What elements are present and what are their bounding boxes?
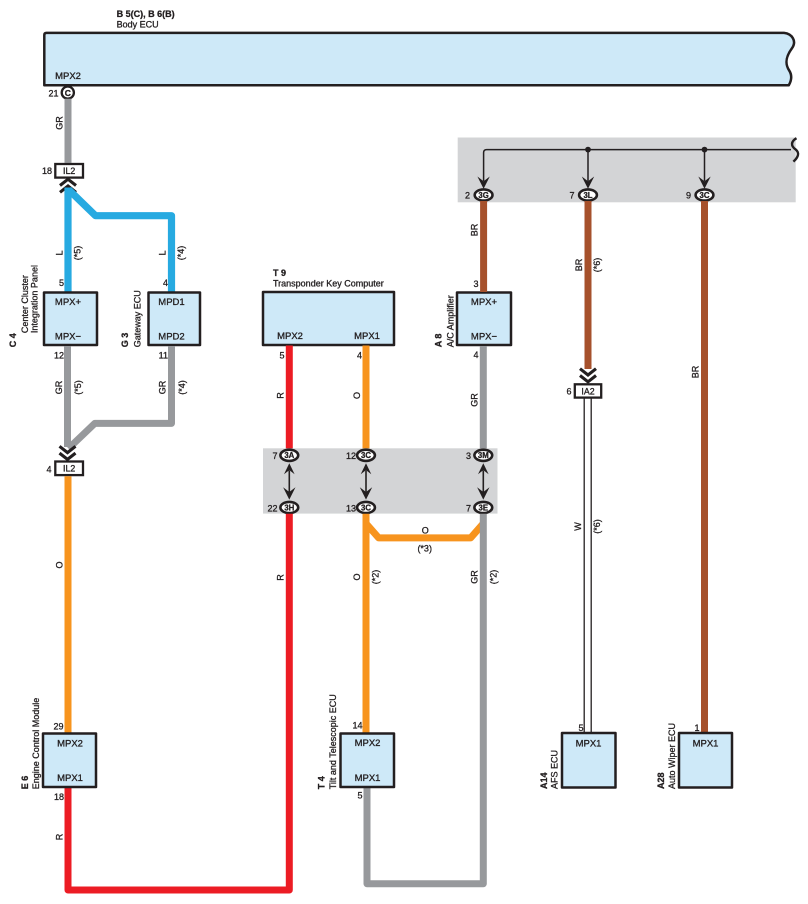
svg-text:5: 5: [578, 723, 583, 733]
arrow into 3C top: [698, 177, 710, 189]
svg-text:R: R: [276, 574, 286, 581]
svg-text:C 4: C 4: [8, 333, 18, 347]
wire O branch (*3): [366, 524, 483, 554]
svg-text:2: 2: [465, 191, 470, 201]
connector 3M pin 3: [466, 450, 492, 461]
connector IL2 pin 18: [42, 164, 83, 178]
wire R T9 pin5 to 3A: [276, 346, 290, 450]
ECU A28 Auto Wiper ECU: [656, 723, 732, 789]
svg-text:GR: GR: [55, 116, 65, 130]
ECU T4 Tilt and Telescopic ECU: [317, 694, 395, 800]
ECU A8 A/C Amplifier: [434, 279, 512, 360]
svg-text:1: 1: [694, 723, 699, 733]
svg-text:W: W: [573, 522, 583, 531]
svg-text:MPX1: MPX1: [355, 773, 381, 784]
ECU T9 Transponder Key Computer: [263, 268, 394, 361]
svg-text:Gateway ECU: Gateway ECU: [133, 290, 143, 347]
svg-text:GR: GR: [470, 570, 480, 584]
svg-text:22: 22: [267, 503, 277, 513]
svg-text:T 4: T 4: [317, 776, 327, 789]
svg-text:MPX1: MPX1: [354, 331, 380, 342]
ECU C4 Center Cluster Integration Panel: [8, 265, 97, 360]
svg-text:IL2: IL2: [63, 166, 75, 176]
svg-text:(*3): (*3): [417, 543, 432, 553]
band continuation squiggle: [792, 138, 798, 161]
wire BR 3C to A28 pin1: [691, 201, 705, 733]
svg-text:5: 5: [59, 278, 64, 288]
wire GR Body ECU pin21 to IL2: [55, 99, 69, 163]
svg-text:3L: 3L: [583, 191, 592, 200]
svg-text:(*4): (*4): [177, 380, 187, 395]
svg-text:A28: A28: [656, 772, 666, 789]
svg-text:MPX2: MPX2: [55, 71, 81, 82]
wire GR A8 pin4 to 3M: [470, 346, 484, 449]
svg-text:Auto Wiper ECU: Auto Wiper ECU: [667, 723, 677, 789]
ECU G3 Gateway ECU: [120, 278, 200, 360]
svg-text:12: 12: [54, 350, 64, 360]
svg-text:5: 5: [357, 790, 362, 800]
wire label GR (*5): [54, 380, 83, 395]
svg-text:MPX2: MPX2: [355, 738, 381, 749]
wire O IL2 to E6 pin29: [55, 476, 69, 733]
wire O T9 pin4 to 3C: [352, 346, 366, 450]
svg-text:A14: A14: [539, 772, 549, 789]
svg-text:4: 4: [163, 278, 168, 288]
svg-text:29: 29: [53, 721, 63, 731]
pass-through arrow 3M-3E: [477, 463, 489, 499]
svg-text:MPD1: MPD1: [158, 297, 184, 308]
svg-text:MPX2: MPX2: [277, 331, 303, 342]
connector 3A pin 7: [272, 450, 298, 461]
svg-text:GR: GR: [158, 380, 168, 394]
pin 21 of Body ECU: [48, 88, 58, 98]
connector 3G pin 2: [465, 189, 493, 200]
svg-text:Transponder Key Computer: Transponder Key Computer: [273, 278, 384, 288]
wire GR from C4 pin12: [64, 346, 71, 447]
wire L from IL2 to C4 and G3: [68, 188, 172, 293]
pass-through arrow 3A-3H: [283, 463, 295, 499]
svg-text:MPX+: MPX+: [471, 297, 498, 308]
svg-text:3: 3: [466, 451, 471, 461]
svg-text:5: 5: [279, 350, 284, 360]
wire GR from G3 pin11: [69, 346, 172, 449]
ECU A14 AFS ECU: [539, 723, 616, 789]
svg-text:GR: GR: [470, 393, 480, 407]
wire label R below E6: [55, 833, 65, 840]
ECU E6 Engine Control Module: [20, 698, 96, 802]
svg-text:(*2): (*2): [371, 570, 381, 585]
connector 3L pin 7: [569, 189, 596, 200]
svg-text:4: 4: [357, 350, 362, 360]
svg-text:12: 12: [346, 451, 356, 461]
svg-text:IL2: IL2: [63, 464, 75, 474]
arrow into 3L: [582, 177, 594, 189]
svg-text:O: O: [422, 525, 429, 535]
connector circle C: [62, 87, 74, 99]
svg-text:Tilt and Telescopic ECU: Tilt and Telescopic ECU: [328, 694, 338, 789]
svg-text:3A: 3A: [284, 451, 294, 460]
svg-text:BR: BR: [470, 223, 480, 236]
wire BR 3G to A8 pin3: [470, 201, 484, 292]
svg-text:Center Cluster: Center Cluster: [20, 275, 30, 333]
svg-text:(*5): (*5): [73, 380, 83, 395]
junction block band top: [458, 138, 796, 203]
svg-text:L: L: [158, 250, 168, 255]
connector 3C pin 13: [346, 502, 375, 513]
svg-text:9: 9: [686, 191, 691, 201]
connector 3E pin 7: [466, 502, 492, 513]
svg-text:E 6: E 6: [20, 776, 30, 790]
chevron marker above IA2: [580, 369, 596, 382]
connector 3H pin 22: [267, 502, 298, 513]
svg-text:R: R: [55, 833, 65, 840]
svg-text:MPX2: MPX2: [57, 739, 83, 750]
svg-text:13: 13: [346, 503, 356, 513]
svg-text:3G: 3G: [478, 191, 488, 200]
svg-text:(*2): (*2): [489, 570, 499, 585]
svg-text:L: L: [55, 250, 65, 255]
svg-text:A/C Amplifier: A/C Amplifier: [446, 295, 456, 347]
svg-text:O: O: [352, 573, 362, 580]
svg-text:T 9: T 9: [273, 268, 286, 278]
svg-text:B 5(C), B 6(B): B 5(C), B 6(B): [117, 9, 175, 19]
connector 3C pin 9: [686, 189, 713, 200]
connector IA2 pin 6: [566, 384, 601, 397]
svg-text:MPD2: MPD2: [158, 332, 184, 343]
svg-text:MPX+: MPX+: [55, 297, 82, 308]
svg-text:3H: 3H: [284, 503, 294, 512]
svg-text:18: 18: [42, 166, 52, 176]
svg-text:3C: 3C: [361, 503, 371, 512]
svg-text:7: 7: [466, 503, 471, 513]
svg-text:18: 18: [54, 792, 64, 802]
pass-through arrow 3C-3C: [360, 463, 372, 499]
svg-text:MPX1: MPX1: [576, 739, 602, 750]
svg-text:O: O: [352, 392, 362, 399]
svg-text:7: 7: [569, 191, 574, 201]
wire O 3C to T4 pin14: [352, 514, 381, 733]
svg-text:3M: 3M: [478, 451, 489, 460]
svg-text:MPX−: MPX−: [55, 332, 82, 343]
svg-text:7: 7: [272, 451, 277, 461]
wire label L (*5): [55, 246, 83, 261]
svg-text:14: 14: [352, 721, 362, 731]
wire label GR (*4): [158, 380, 188, 395]
svg-text:3E: 3E: [479, 503, 489, 512]
junction block band middle: [263, 448, 498, 513]
svg-text:BR: BR: [691, 365, 701, 378]
svg-text:11: 11: [159, 350, 168, 360]
svg-text:MPX1: MPX1: [693, 739, 719, 750]
chevron marker above IL2 second: [60, 446, 76, 459]
svg-text:6: 6: [566, 386, 571, 396]
bus line in top band: [484, 147, 791, 181]
svg-text:O: O: [55, 561, 65, 568]
svg-text:(*4): (*4): [176, 246, 186, 261]
wire BR 3L to IA2: [574, 201, 602, 369]
svg-text:MPX−: MPX−: [471, 332, 498, 343]
svg-text:21: 21: [48, 88, 58, 98]
svg-text:MPX1: MPX1: [57, 773, 83, 784]
svg-text:(*6): (*6): [592, 519, 602, 534]
svg-text:BR: BR: [574, 258, 584, 271]
svg-text:3: 3: [473, 279, 478, 289]
svg-text:AFS ECU: AFS ECU: [550, 750, 560, 789]
arrow into 3G: [477, 177, 489, 189]
wire W IA2 to A14 pin5: [573, 399, 602, 734]
chevron marker below IL2: [60, 179, 76, 192]
svg-text:C: C: [65, 88, 71, 98]
svg-text:Engine Control Module: Engine Control Module: [31, 698, 41, 790]
svg-text:R: R: [276, 392, 286, 399]
svg-text:Body ECU: Body ECU: [117, 19, 159, 29]
svg-text:(*5): (*5): [73, 246, 83, 261]
svg-text:G 3: G 3: [120, 333, 130, 348]
svg-text:3C: 3C: [700, 191, 710, 200]
wire GR 3E to T4 pin5 via bottom: [367, 514, 499, 884]
connector 3C pin 12: [346, 450, 375, 461]
svg-text:(*6): (*6): [592, 258, 602, 273]
svg-text:GR: GR: [54, 380, 64, 394]
svg-text:IA2: IA2: [581, 386, 594, 396]
wire R 3H to E6 pin18 via bottom: [68, 514, 289, 890]
connector IL2 pin 4: [46, 462, 83, 476]
svg-text:4: 4: [46, 464, 51, 474]
svg-text:3C: 3C: [361, 451, 371, 460]
svg-text:Integration Panel: Integration Panel: [30, 265, 40, 333]
wire label L (*4): [158, 246, 187, 261]
svg-text:A 8: A 8: [434, 334, 444, 348]
svg-text:4: 4: [473, 350, 478, 360]
ECU B5/B6 Body ECU box: [44, 9, 794, 86]
